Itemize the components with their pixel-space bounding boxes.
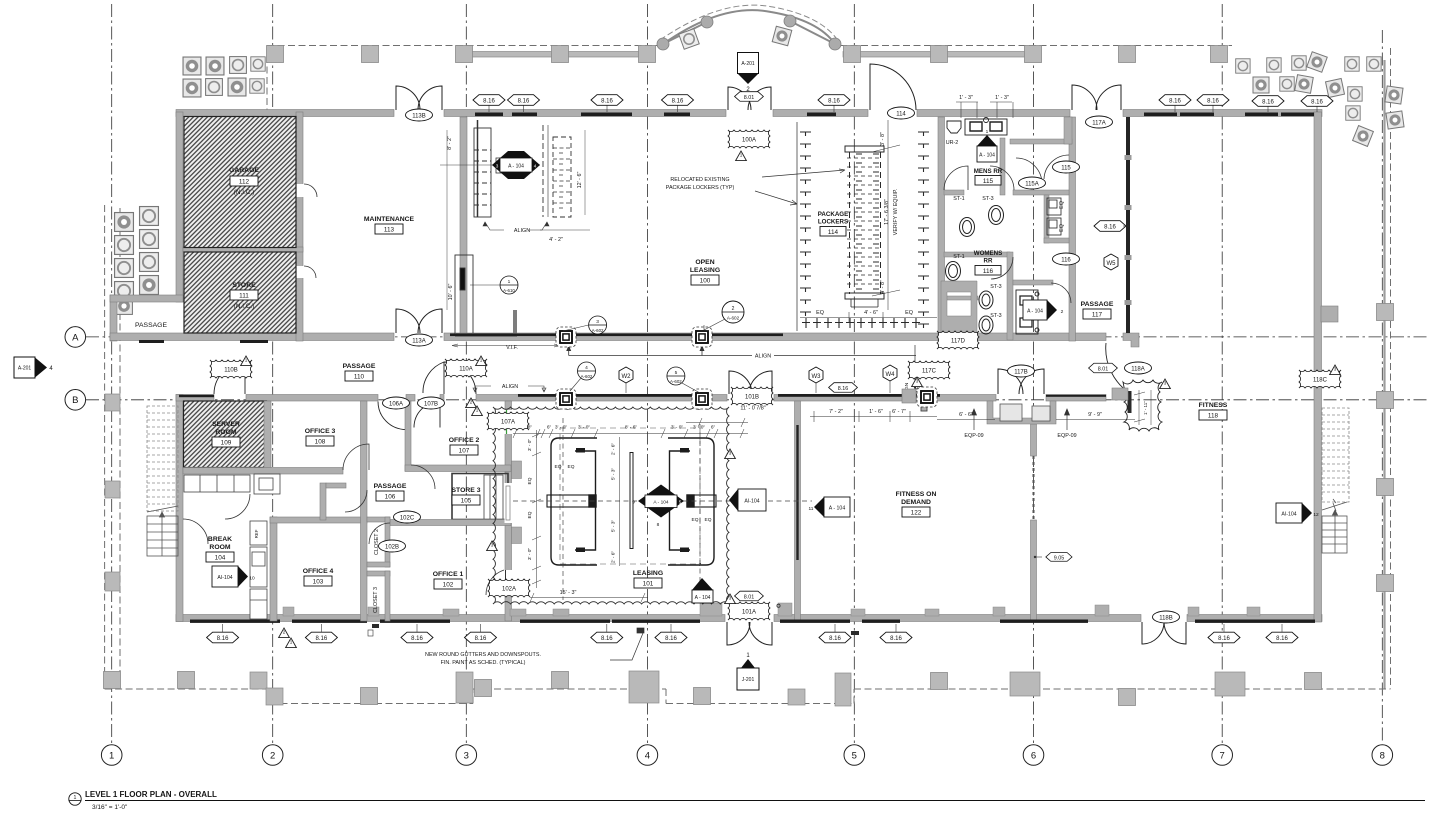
glass wall fitness west (dark) bbox=[1126, 117, 1130, 333]
office2 south wall bbox=[405, 465, 511, 472]
svg-text:118B: 118B bbox=[1159, 615, 1173, 621]
svg-text:8.01: 8.01 bbox=[1098, 366, 1109, 372]
svg-text:1: 1 bbox=[245, 358, 248, 363]
V.I.F. dim line bbox=[452, 344, 560, 347]
svg-text:DEMAND: DEMAND bbox=[901, 499, 931, 506]
grid bubble B bbox=[65, 390, 86, 411]
janitor room gray bbox=[941, 281, 977, 340]
svg-text:117A: 117A bbox=[1092, 120, 1106, 126]
vestibule walls below 117B bbox=[987, 401, 1056, 424]
title circle bbox=[69, 793, 81, 805]
grid6 wall lower bbox=[1031, 424, 1037, 456]
svg-text:LEASING: LEASING bbox=[690, 267, 720, 274]
svg-text:117D: 117D bbox=[951, 338, 966, 344]
svg-text:MENS RR: MENS RR bbox=[974, 168, 1003, 175]
svg-text:106: 106 bbox=[385, 494, 396, 501]
svg-text:1: 1 bbox=[74, 795, 77, 801]
svg-text:8.16: 8.16 bbox=[1207, 98, 1219, 104]
svg-text:3/16" = 1'-0": 3/16" = 1'-0" bbox=[92, 804, 128, 811]
svg-text:STORE: STORE bbox=[232, 282, 256, 289]
section marker A-201 left bbox=[14, 357, 53, 378]
svg-text:3: 3 bbox=[496, 163, 499, 168]
svg-text:8.16: 8.16 bbox=[483, 98, 495, 104]
room label MENS RR 115 bbox=[974, 168, 1003, 185]
gray columns at B row mid bbox=[1112, 388, 1128, 400]
svg-text:8.16: 8.16 bbox=[316, 636, 328, 642]
svg-text:109: 109 bbox=[221, 440, 232, 447]
svg-text:1' - 6": 1' - 6" bbox=[869, 409, 883, 415]
svg-text:PASSAGE: PASSAGE bbox=[135, 322, 167, 329]
store3/office1 divider wall bbox=[390, 520, 511, 526]
svg-text:111: 111 bbox=[239, 293, 249, 300]
svg-text:3' - 0": 3' - 0" bbox=[555, 425, 568, 431]
svg-text:FITNESS ON: FITNESS ON bbox=[896, 491, 937, 498]
svg-text:7: 7 bbox=[699, 562, 702, 568]
svg-text:2' - 6": 2' - 6" bbox=[611, 443, 617, 456]
svg-text:102B: 102B bbox=[385, 544, 399, 550]
right exterior wall bbox=[1314, 112, 1322, 622]
svg-text:8.16: 8.16 bbox=[475, 636, 487, 642]
room label OPEN LEASING 100 bbox=[690, 259, 720, 285]
hex tag 8.01 near 101A bbox=[735, 591, 764, 601]
svg-text:FIN. PAINT AS SCHED. (TYPICAL): FIN. PAINT AS SCHED. (TYPICAL) bbox=[441, 660, 526, 666]
svg-text:8.16: 8.16 bbox=[1311, 99, 1323, 105]
svg-text:117B: 117B bbox=[1014, 369, 1028, 375]
svg-text:8.16: 8.16 bbox=[601, 98, 613, 104]
left wall upper block bbox=[176, 112, 183, 302]
svg-text:8.16: 8.16 bbox=[518, 98, 530, 104]
svg-text:8.16: 8.16 bbox=[838, 386, 849, 392]
svg-text:6": 6" bbox=[711, 425, 716, 431]
svg-text:102: 102 bbox=[443, 582, 454, 589]
svg-text:1: 1 bbox=[508, 279, 511, 285]
callout house A-104 mens RR bbox=[977, 129, 997, 162]
section marker J-201 bottom bbox=[737, 653, 759, 690]
leasing inner dashed rect bbox=[560, 428, 700, 564]
svg-text:REF: REF bbox=[254, 529, 259, 538]
9.05 tag with leader bbox=[1046, 553, 1072, 562]
svg-text:117: 117 bbox=[1092, 312, 1103, 319]
svg-text:2: 2 bbox=[470, 400, 473, 405]
svg-text:EQP-09: EQP-09 bbox=[964, 433, 983, 439]
office2 west wall bbox=[405, 401, 411, 471]
oval door tags bbox=[379, 107, 1180, 623]
svg-text:7: 7 bbox=[1220, 750, 1225, 761]
svg-text:110B: 110B bbox=[224, 367, 238, 373]
closets west wall bbox=[361, 401, 368, 621]
svg-text:4' - 8": 4' - 8" bbox=[880, 280, 886, 294]
svg-text:8: 8 bbox=[1380, 750, 1385, 761]
A-row wall right stub at 118A bbox=[1123, 333, 1139, 347]
svg-text:ALIGN: ALIGN bbox=[502, 384, 518, 390]
svg-text:1: 1 bbox=[290, 640, 293, 645]
svg-text:NEW ROUND GUTTERS AND DOWNSPOU: NEW ROUND GUTTERS AND DOWNSPOUTS. bbox=[425, 652, 541, 658]
B wall end jamb at 118A bbox=[1128, 391, 1132, 413]
svg-text:4: 4 bbox=[585, 365, 588, 371]
garage door gaps bbox=[295, 184, 317, 278]
svg-text:PASSAGE: PASSAGE bbox=[343, 363, 376, 370]
svg-text:AI-104: AI-104 bbox=[1281, 512, 1296, 518]
svg-text:3: 3 bbox=[916, 379, 919, 384]
svg-text:106A: 106A bbox=[389, 401, 403, 407]
svg-text:A-602: A-602 bbox=[727, 316, 740, 321]
paver cluster top-right bbox=[1236, 52, 1404, 147]
office4 west wall bbox=[270, 517, 277, 621]
svg-text:118A: 118A bbox=[1131, 366, 1145, 372]
svg-text:ST-3: ST-3 bbox=[990, 284, 1001, 290]
triangles numbered bbox=[279, 628, 290, 638]
grid row lines A B bbox=[86, 337, 1428, 400]
svg-text:8.16: 8.16 bbox=[890, 636, 902, 642]
svg-text:9.05: 9.05 bbox=[1054, 556, 1065, 562]
room label OFFICE 3 108 bbox=[305, 428, 336, 446]
svg-text:ROOM: ROOM bbox=[209, 544, 230, 551]
door 113B arcs bbox=[396, 86, 442, 110]
svg-text:UR-2: UR-2 bbox=[946, 140, 959, 146]
canopy beam right of entry arc bbox=[843, 52, 1040, 58]
door 110B arc bbox=[214, 363, 245, 394]
svg-text:114: 114 bbox=[896, 111, 906, 117]
svg-text:3: 3 bbox=[464, 750, 469, 761]
office4 north wall bbox=[270, 517, 367, 523]
svg-text:J-201: J-201 bbox=[742, 677, 755, 683]
svg-text:(N.I.C.): (N.I.C.) bbox=[234, 303, 255, 310]
grid bubbles 1-8 bbox=[101, 745, 1392, 766]
svg-text:OFFICE 3: OFFICE 3 bbox=[305, 428, 336, 435]
svg-text:3' - 0": 3' - 0" bbox=[527, 439, 533, 452]
svg-text:GARAGE: GARAGE bbox=[229, 167, 259, 174]
svg-text:OPEN: OPEN bbox=[695, 259, 714, 266]
svg-text:8.16: 8.16 bbox=[672, 98, 684, 104]
office3 south wall bbox=[183, 468, 343, 475]
svg-text:8.01: 8.01 bbox=[744, 95, 755, 101]
bottom wall pilasters bbox=[283, 603, 1260, 616]
title underline bbox=[85, 800, 1425, 802]
left passage north wall bbox=[110, 295, 183, 302]
svg-text:VERIFY W/ EQUIP.: VERIFY W/ EQUIP. bbox=[893, 189, 899, 236]
dark glazing line on A-row wall bbox=[139, 334, 783, 344]
svg-text:A: A bbox=[72, 332, 79, 343]
door 106A arc bbox=[378, 402, 406, 430]
svg-text:117C: 117C bbox=[922, 368, 937, 374]
detail circle 5 A-602 bbox=[667, 367, 700, 393]
svg-text:4' - 2": 4' - 2" bbox=[549, 237, 563, 243]
door 100A arcs bbox=[728, 87, 771, 110]
svg-text:ST-3: ST-3 bbox=[990, 313, 1001, 319]
svg-text:WOMENS: WOMENS bbox=[974, 250, 1003, 257]
server room east wall bbox=[264, 401, 271, 473]
package lockers dashed strips bbox=[797, 122, 929, 331]
svg-text:2: 2 bbox=[283, 630, 286, 635]
svg-text:122: 122 bbox=[911, 510, 922, 517]
svg-text:103: 103 bbox=[313, 579, 324, 586]
svg-text:A-602: A-602 bbox=[670, 379, 682, 384]
svg-text:11: 11 bbox=[809, 506, 814, 512]
svg-text:MAINTENANCE: MAINTENANCE bbox=[364, 216, 415, 223]
leasing west wall pilasters bbox=[512, 461, 522, 479]
svg-text:5' - 3": 5' - 3" bbox=[611, 468, 617, 481]
svg-text:PASSAGE: PASSAGE bbox=[374, 483, 407, 490]
svg-text:A - 104: A - 104 bbox=[653, 500, 669, 506]
room label FITNESS ON DEMAND 122 bbox=[896, 491, 937, 517]
restrooms east wall bbox=[1069, 117, 1076, 341]
svg-text:8.01: 8.01 bbox=[744, 594, 755, 600]
svg-text:8.16: 8.16 bbox=[665, 636, 677, 642]
svg-text:105: 105 bbox=[461, 498, 472, 505]
svg-text:ST-1: ST-1 bbox=[953, 196, 964, 202]
hex tag 8.01 top bbox=[735, 92, 764, 102]
svg-text:1: 1 bbox=[740, 153, 743, 158]
top exterior wall segments bbox=[176, 110, 394, 117]
svg-text:PACKAGE LOCKERS (TYP): PACKAGE LOCKERS (TYP) bbox=[666, 185, 735, 191]
hex tags right wall bbox=[1094, 221, 1126, 232]
bottom exterior wall segments bbox=[176, 615, 725, 622]
svg-text:AI-104: AI-104 bbox=[217, 575, 232, 581]
svg-text:118C: 118C bbox=[1313, 377, 1328, 383]
svg-text:LOCKERS: LOCKERS bbox=[818, 219, 848, 226]
canopy dashed edge left side bbox=[105, 205, 120, 689]
garage east wall bbox=[296, 112, 303, 341]
leasing desks left bbox=[547, 438, 597, 565]
server room 109 hatched floor bbox=[184, 401, 267, 468]
svg-text:8.16: 8.16 bbox=[1276, 636, 1288, 642]
svg-text:12' - 6": 12' - 6" bbox=[577, 172, 583, 189]
vestibule equipment rects bbox=[1000, 404, 1050, 421]
svg-text:8' - 2": 8' - 2" bbox=[447, 136, 453, 150]
restroom toilets bbox=[946, 206, 1004, 335]
room label LEASING 101 bbox=[633, 570, 663, 588]
svg-text:SERVER: SERVER bbox=[212, 421, 240, 428]
svg-text:113: 113 bbox=[384, 227, 395, 234]
door 110A arcs bbox=[423, 362, 476, 394]
garage/store divider wall bbox=[183, 247, 303, 252]
svg-text:6' - 6": 6' - 6" bbox=[959, 412, 973, 418]
svg-text:2' - 6": 2' - 6" bbox=[611, 551, 617, 564]
maintenance dumbwaiter shaft bbox=[455, 255, 515, 335]
svg-text:A-610: A-610 bbox=[503, 288, 515, 293]
svg-text:11' - 0 7/8": 11' - 0 7/8" bbox=[740, 406, 765, 412]
room label PASSAGE 110 bbox=[343, 363, 376, 381]
svg-text:8.16: 8.16 bbox=[829, 636, 841, 642]
svg-text:V.I.F.: V.I.F. bbox=[506, 345, 518, 351]
svg-text:EQ: EQ bbox=[1059, 201, 1065, 209]
svg-text:113B: 113B bbox=[412, 113, 426, 119]
section marker A-201 top bbox=[738, 53, 759, 94]
dim lines maintenance lockers bbox=[440, 130, 590, 310]
door 107B arc bbox=[414, 402, 440, 428]
canopy dashed roof edge top bbox=[267, 46, 1232, 113]
svg-text:EQ: EQ bbox=[527, 511, 533, 518]
svg-text:115: 115 bbox=[983, 178, 994, 185]
svg-text:RELOCATED EXISTING: RELOCATED EXISTING bbox=[670, 177, 729, 183]
room label OFFICE 1 102 bbox=[433, 571, 464, 589]
shelving unit right of store3 bbox=[484, 475, 503, 520]
leasing revision cloud boundary bbox=[493, 407, 729, 604]
cloud door tags bbox=[210, 130, 1341, 620]
svg-text:7' - 2": 7' - 2" bbox=[829, 409, 843, 415]
canopy columns bottom row bbox=[104, 672, 121, 689]
leasing construction dashed lines bbox=[513, 418, 812, 600]
svg-text:102A: 102A bbox=[502, 586, 516, 592]
door 101B arcs bbox=[729, 371, 772, 394]
svg-text:4: 4 bbox=[534, 163, 537, 168]
svg-text:3' - 8": 3' - 8" bbox=[880, 132, 886, 146]
restroom interior partitions bbox=[944, 117, 1072, 340]
svg-text:3' - 0": 3' - 0" bbox=[671, 425, 684, 431]
svg-text:116: 116 bbox=[983, 268, 994, 275]
leasing cloud dim cluster right bbox=[686, 418, 748, 427]
svg-text:110: 110 bbox=[354, 374, 365, 381]
svg-text:4: 4 bbox=[645, 750, 650, 761]
svg-text:8.16: 8.16 bbox=[217, 636, 229, 642]
callout house A-104 leasing bottom bbox=[692, 562, 713, 603]
detail circle 1 A-610 bbox=[470, 276, 518, 294]
svg-text:1: 1 bbox=[109, 750, 114, 761]
svg-text:AI-104: AI-104 bbox=[744, 499, 759, 505]
svg-text:A - 104: A - 104 bbox=[829, 506, 846, 512]
detail circle 3 A-602 bbox=[563, 316, 607, 334]
svg-text:A-602: A-602 bbox=[581, 374, 593, 379]
svg-text:3: 3 bbox=[729, 451, 732, 456]
room label GARAGE 112 bbox=[229, 167, 259, 196]
fitness equipment EQP-09 left bbox=[921, 401, 927, 411]
svg-text:10' - 6": 10' - 6" bbox=[448, 284, 454, 301]
storefront glazing dark bands top wall bbox=[475, 113, 1314, 117]
svg-text:8.16: 8.16 bbox=[1169, 98, 1181, 104]
svg-text:EQ: EQ bbox=[527, 477, 533, 484]
canopy dashed edge right side bbox=[1390, 48, 1392, 689]
right wall jog block bbox=[1321, 306, 1338, 322]
svg-text:LEASING: LEASING bbox=[633, 570, 663, 577]
cabinet row below server room bbox=[184, 474, 280, 494]
room label BREAK ROOM 104 bbox=[206, 536, 234, 562]
leasing desks right bbox=[668, 438, 716, 565]
svg-text:118: 118 bbox=[1208, 413, 1219, 420]
leasing west wall door gaps bbox=[486, 410, 513, 596]
svg-text:2: 2 bbox=[1061, 309, 1064, 315]
room label STORE 111 bbox=[230, 282, 258, 310]
relocated locker strip 1 bbox=[474, 120, 512, 217]
svg-text:ALIGN: ALIGN bbox=[514, 228, 530, 234]
svg-text:LEVEL 1 FLOOR PLAN - OVERALL: LEVEL 1 FLOOR PLAN - OVERALL bbox=[85, 790, 217, 799]
room label FITNESS 118 bbox=[1199, 402, 1228, 420]
svg-text:115A: 115A bbox=[1025, 181, 1039, 187]
svg-text:6: 6 bbox=[1031, 750, 1036, 761]
canopy columns left side bbox=[105, 394, 120, 411]
room label OFFICE 4 103 bbox=[303, 568, 334, 586]
svg-text:1' - 11": 1' - 11" bbox=[1143, 401, 1148, 415]
leasing/offices divider wall bbox=[505, 401, 512, 621]
stairs exterior left bbox=[147, 406, 178, 511]
svg-text:BREAK: BREAK bbox=[208, 536, 232, 543]
callout flag AI-104 break room bbox=[212, 566, 255, 587]
room label PACKAGE LOCKERS 114 bbox=[818, 211, 848, 236]
svg-text:EQ: EQ bbox=[705, 517, 712, 523]
room label OFFICE 2 107 bbox=[449, 437, 480, 455]
svg-text:ST-3: ST-3 bbox=[982, 196, 993, 202]
svg-text:W2: W2 bbox=[622, 374, 632, 380]
svg-text:W5: W5 bbox=[1107, 261, 1117, 267]
svg-text:8' - 6": 8' - 6" bbox=[625, 425, 638, 431]
door 114 arc bbox=[870, 64, 916, 110]
svg-text:OFFICE 1: OFFICE 1 bbox=[433, 571, 464, 578]
left wall lower block bbox=[176, 395, 183, 622]
womens RR sink counters bbox=[1016, 290, 1039, 334]
svg-text:115: 115 bbox=[1061, 165, 1071, 171]
door 118B arcs bottom bbox=[1142, 622, 1186, 644]
svg-text:A - 104: A - 104 bbox=[508, 164, 524, 170]
svg-text:108: 108 bbox=[315, 439, 326, 446]
room label PASSAGE 106 bbox=[374, 483, 407, 501]
svg-text:A-602: A-602 bbox=[592, 328, 604, 333]
svg-text:3' - 0": 3' - 0" bbox=[693, 425, 706, 431]
entry canopy rotated pavers bbox=[679, 29, 700, 50]
restroom interior door arcs bbox=[944, 155, 1071, 303]
svg-text:5: 5 bbox=[852, 750, 857, 761]
maintenance east wall bbox=[460, 117, 467, 333]
paver cluster left bbox=[115, 207, 159, 315]
svg-text:ROOM: ROOM bbox=[215, 429, 236, 436]
door 101A arcs bottom bbox=[727, 622, 772, 645]
svg-text:EQ: EQ bbox=[555, 464, 562, 470]
svg-text:FITNESS: FITNESS bbox=[1199, 402, 1228, 409]
svg-text:112: 112 bbox=[239, 179, 250, 186]
svg-text:107: 107 bbox=[459, 448, 470, 455]
svg-text:104: 104 bbox=[215, 555, 226, 562]
hex tags 8.16 top bbox=[473, 95, 1333, 107]
canopy beam left of entry arc bbox=[467, 52, 647, 58]
passage106 partition walls bbox=[320, 483, 346, 520]
svg-text:3: 3 bbox=[1334, 367, 1337, 372]
revision cloud right with dims bbox=[1123, 380, 1162, 431]
svg-text:A-201: A-201 bbox=[741, 61, 755, 67]
svg-text:8.16: 8.16 bbox=[601, 636, 613, 642]
B-row wall segments bbox=[176, 395, 214, 402]
svg-text:EQ: EQ bbox=[692, 517, 699, 523]
leasing center screen bbox=[630, 453, 633, 549]
fitness-on-demand west wall bbox=[795, 401, 801, 621]
svg-text:A - 104: A - 104 bbox=[1027, 309, 1043, 315]
svg-text:4' - 6": 4' - 6" bbox=[864, 310, 878, 316]
interior door arcs lower block bbox=[183, 444, 435, 544]
svg-text:17' - 6 3/8": 17' - 6 3/8" bbox=[884, 199, 890, 225]
svg-text:5: 5 bbox=[679, 499, 682, 504]
callout diamond A-104 maintenance bbox=[492, 151, 540, 179]
svg-text:ST-1: ST-1 bbox=[953, 254, 964, 260]
ALIGN (VIF) vertical note bbox=[914, 345, 916, 393]
grid6 wall dashed gap bbox=[1033, 456, 1035, 520]
left passage west wall bbox=[110, 295, 117, 341]
svg-text:8.16: 8.16 bbox=[1262, 99, 1274, 105]
shower room fixtures bbox=[1047, 198, 1061, 235]
svg-text:10: 10 bbox=[249, 576, 255, 582]
callout flag AI-104 right stairs bbox=[1276, 503, 1319, 523]
store 111 hatched floor bbox=[184, 252, 296, 333]
svg-text:113A: 113A bbox=[412, 338, 426, 344]
svg-text:100A: 100A bbox=[742, 137, 756, 143]
restrooms west wall bbox=[938, 117, 945, 341]
svg-text:A - 104: A - 104 bbox=[695, 595, 711, 601]
svg-text:101A: 101A bbox=[742, 609, 756, 615]
svg-text:EQ: EQ bbox=[816, 310, 824, 316]
svg-text:EQP-09: EQP-09 bbox=[1057, 433, 1076, 439]
callout flag A-104 womens bbox=[1023, 300, 1064, 320]
detail circle 4 A-602 bbox=[570, 362, 596, 391]
door 117A arcs bbox=[1072, 85, 1121, 110]
column wrap symbols bbox=[556, 327, 576, 347]
svg-text:101: 101 bbox=[643, 581, 654, 588]
canopy columns right side bbox=[1377, 304, 1394, 321]
